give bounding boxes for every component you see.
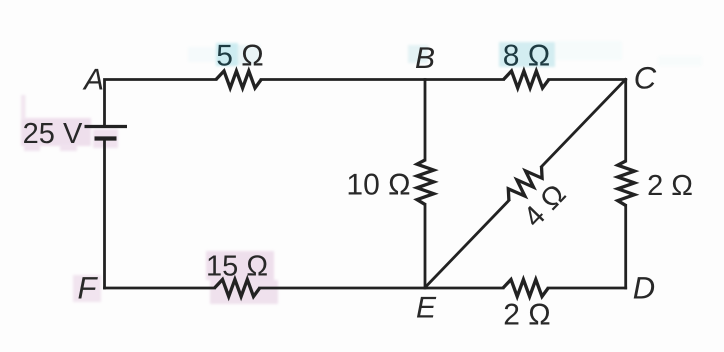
svg-text:10 Ω: 10 Ω bbox=[346, 168, 410, 201]
svg-text:A: A bbox=[82, 64, 104, 97]
svg-text:B: B bbox=[415, 42, 435, 75]
svg-text:C: C bbox=[634, 61, 657, 96]
svg-text:F: F bbox=[78, 271, 99, 306]
svg-text:D: D bbox=[633, 271, 655, 306]
svg-text:4 Ω: 4 Ω bbox=[518, 178, 573, 233]
svg-text:5 Ω: 5 Ω bbox=[216, 40, 263, 73]
svg-text:15 Ω: 15 Ω bbox=[206, 251, 268, 283]
svg-text:2 Ω: 2 Ω bbox=[503, 299, 550, 332]
svg-text:2 Ω: 2 Ω bbox=[647, 170, 693, 202]
svg-text:25 V: 25 V bbox=[23, 118, 83, 150]
svg-text:E: E bbox=[416, 292, 437, 325]
svg-text:8 Ω: 8 Ω bbox=[503, 40, 550, 73]
